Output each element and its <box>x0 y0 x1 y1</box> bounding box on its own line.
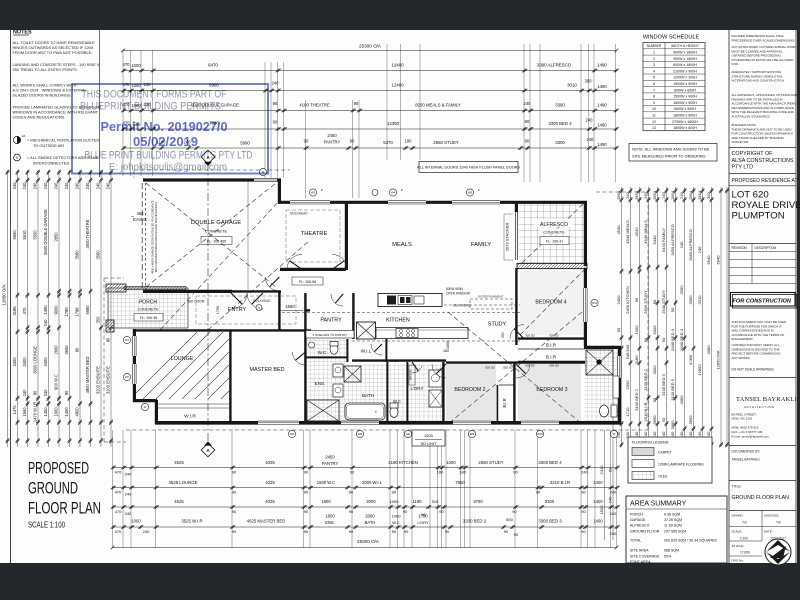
svg-text:1800W x 600H: 1800W x 600H <box>673 126 697 130</box>
svg-text:6940: 6940 <box>716 255 721 265</box>
svg-text:450: 450 <box>137 211 145 216</box>
svg-text:PLUMPTON: PLUMPTON <box>732 211 785 222</box>
svg-text:1790: 1790 <box>418 514 428 519</box>
svg-text:1800 W.C: 1800 W.C <box>317 480 335 485</box>
svg-text:37.26 SQM: 37.26 SQM <box>664 518 682 522</box>
svg-text:3300 BED 4: 3300 BED 4 <box>548 121 572 126</box>
svg-text:240: 240 <box>661 191 666 198</box>
step out wall to wc <box>584 346 621 349</box>
svg-text:L'DRY: L'DRY <box>417 520 429 525</box>
title block hline <box>729 480 796 482</box>
svg-text:2390: 2390 <box>625 380 630 390</box>
svg-text:BULKHEAD: BULKHEAD <box>290 212 308 216</box>
svg-text:5370: 5370 <box>383 140 393 145</box>
svg-text:PANTRY: PANTRY <box>324 140 341 145</box>
svg-text:3195: 3195 <box>12 306 17 316</box>
svg-text:1800W x 900H: 1800W x 900H <box>673 101 697 105</box>
svg-text:GROUND FLOOR: GROUND FLOOR <box>630 529 660 533</box>
theatre double door <box>287 254 302 269</box>
alfresco top wall <box>513 201 587 204</box>
svg-text:3600: 3600 <box>64 345 69 355</box>
svg-text:3790: 3790 <box>473 499 483 504</box>
smoke detector circle entry <box>256 305 262 311</box>
svg-text:4/: 4/ <box>321 188 323 192</box>
theatre bulkhead dashed <box>286 210 340 262</box>
svg-text:240: 240 <box>697 246 702 253</box>
svg-text:OPEN WINDOW: OPEN WINDOW <box>446 292 470 296</box>
svg-text:1470: 1470 <box>12 405 17 415</box>
window tag circles top wall <box>309 189 316 196</box>
svg-text:5000: 5000 <box>652 325 657 335</box>
svg-text:1400: 1400 <box>593 519 603 524</box>
svg-text:4025: 4025 <box>265 460 275 465</box>
svg-text:EAVES: EAVES <box>133 217 147 222</box>
svg-text:820 DOOR: 820 DOOR <box>188 300 205 304</box>
svg-text:240: 240 <box>625 191 630 198</box>
svg-text:THIS DOCUMENT FORMS PART OF: THIS DOCUMENT FORMS PART OF <box>82 89 227 101</box>
svg-text:12: 12 <box>652 120 656 124</box>
svg-text:180: 180 <box>405 139 413 144</box>
svg-text:T.B: T.B <box>776 521 781 525</box>
svg-text:8: 8 <box>653 95 655 99</box>
svg-text:BLUE PRINT BUILDING PERMITS PT: BLUE PRINT BUILDING PERMITS PTY LTD <box>85 150 253 162</box>
for construction box <box>731 293 796 307</box>
top dimension row 6 <box>123 147 617 149</box>
svg-text:B.I.R: B.I.R <box>502 398 507 407</box>
svg-text:90: 90 <box>304 509 309 514</box>
svg-text:12850 O/A: 12850 O/A <box>716 350 721 369</box>
svg-text:GROUND FLOOR PLAN: GROUND FLOOR PLAN <box>732 495 790 501</box>
svg-text:2400: 2400 <box>616 295 621 305</box>
tiled floor bath wc2 <box>347 364 407 422</box>
svg-text:4.080: 4.080 <box>688 354 693 365</box>
floor fill carpet rooms <box>446 364 496 421</box>
svg-text:1470 W.I.R: 1470 W.I.R <box>33 402 38 422</box>
svg-text:GROUND: GROUND <box>28 480 78 498</box>
svg-text:ALFRESCO: ALFRESCO <box>540 222 568 228</box>
bedroom block top wall <box>446 361 585 363</box>
svg-text:W.C: W.C <box>392 520 400 525</box>
svg-text:PROPOSED RESIDENCE AT: PROPOSED RESIDENCE AT <box>732 178 798 184</box>
svg-text:90: 90 <box>581 509 586 514</box>
svg-text:6: 6 <box>653 82 655 86</box>
wc1 fixtures <box>330 344 338 354</box>
svg-text:ANY WORKS.: ANY WORKS. <box>732 356 751 360</box>
svg-text:90: 90 <box>232 529 237 534</box>
svg-text:510: 510 <box>432 499 439 504</box>
svg-text:W1: W1 <box>125 338 130 342</box>
svg-text:1800: 1800 <box>321 499 331 504</box>
svg-text:4100 THEATRE: 4100 THEATRE <box>299 103 330 108</box>
svg-text:240: 240 <box>43 389 48 397</box>
garage centre roof line <box>247 181 249 290</box>
svg-text:4/: 4/ <box>401 188 403 192</box>
svg-text:470: 470 <box>115 529 122 534</box>
svg-text:ESMT AREA: ESMT AREA <box>630 560 651 564</box>
top dimension row 5 <box>123 128 617 130</box>
svg-text:5550: 5550 <box>12 230 17 240</box>
svg-text:W6: W6 <box>290 432 295 436</box>
svg-text:8200 MEALS & FAMILY: 8200 MEALS & FAMILY <box>415 103 461 108</box>
bottom dimension row 3 <box>113 506 617 508</box>
svg-text:PTY LTD: PTY LTD <box>732 165 754 171</box>
svg-text:ENS.: ENS. <box>325 520 335 525</box>
bottom dimension row 4 <box>113 526 617 528</box>
svg-text:240: 240 <box>610 531 617 536</box>
svg-text:290: 290 <box>501 332 505 338</box>
svg-text:BEDROOM 4: BEDROOM 4 <box>535 300 566 306</box>
title block hline <box>729 377 796 379</box>
svg-text:2673 STACKER: 2673 STACKER <box>505 223 510 252</box>
svg-text:2650 STUDY: 2650 STUDY <box>478 460 503 465</box>
svg-text:ENTERTAINMENT: ENTERTAINMENT <box>478 295 503 299</box>
svg-text:3100 BED 3: 3100 BED 3 <box>661 373 666 395</box>
svg-text:4080: 4080 <box>706 345 711 355</box>
garage top wall <box>143 178 281 181</box>
svg-text:50%: 50% <box>664 555 672 559</box>
svg-text:240: 240 <box>679 241 684 248</box>
svg-text:3100 BED 2: 3100 BED 2 <box>634 388 639 410</box>
svg-text:90: 90 <box>64 390 69 395</box>
svg-text:240: 240 <box>610 490 617 495</box>
svg-text:10: 10 <box>652 107 656 111</box>
kitchen bench <box>376 328 468 339</box>
svg-text:5440: 5440 <box>652 235 657 245</box>
svg-text:FAX: + 61 3 90777 145: FAX: + 61 3 90777 145 <box>732 430 763 434</box>
svg-text:11.69 SQM: 11.69 SQM <box>664 524 682 528</box>
ens shower <box>307 400 339 421</box>
svg-text:240: 240 <box>643 191 648 198</box>
svg-text:90: 90 <box>608 467 613 472</box>
svg-text:240: 240 <box>22 182 27 190</box>
svg-text:SCALE 1:100: SCALE 1:100 <box>28 521 65 530</box>
svg-text:1560: 1560 <box>22 407 27 417</box>
area summary box <box>626 496 727 563</box>
svg-text:3390: 3390 <box>679 285 684 295</box>
svg-text:90: 90 <box>392 529 397 534</box>
bedroom4 dashed diagonal <box>520 270 584 335</box>
svg-text:90: 90 <box>304 529 309 534</box>
svg-text:240: 240 <box>587 137 595 142</box>
wil walls <box>346 339 348 362</box>
bed2 door <box>432 364 446 378</box>
svg-text:ALL INTERNAL DOORS 2340 HIGH F: ALL INTERNAL DOORS 2340 HIGH FLUSH PANEL… <box>417 166 520 170</box>
svg-text:588 SQM: 588 SQM <box>664 549 679 553</box>
svg-text:KITCHEN: KITCHEN <box>386 318 410 324</box>
svg-text:BATH: BATH <box>362 393 374 398</box>
right outer wall wc <box>618 347 621 424</box>
svg-text:FL: 106.41: FL: 106.41 <box>546 239 563 243</box>
bottom dimension row 1 <box>113 467 617 469</box>
svg-text:1000: 1000 <box>390 499 400 504</box>
svg-text:W2: W2 <box>125 375 130 379</box>
svg-text:A R C H I T E C T U R E: A R C H I T E C T U R E <box>744 405 774 409</box>
alfresco dashed diagonal <box>522 204 583 263</box>
top dimension row 1 25300 overall <box>123 50 617 52</box>
svg-text:1400: 1400 <box>593 480 603 485</box>
svg-text:90: 90 <box>581 490 586 495</box>
entry wall stub <box>232 290 281 292</box>
title block hline <box>729 173 796 175</box>
svg-text:90: 90 <box>350 139 355 144</box>
svg-text:1200W x 300H: 1200W x 300H <box>673 76 697 80</box>
svg-text:13: 13 <box>652 126 656 130</box>
svg-text:240: 240 <box>272 81 280 86</box>
svg-text:240: 240 <box>608 496 613 503</box>
svg-text:2450: 2450 <box>327 133 337 138</box>
svg-text:2450: 2450 <box>325 455 335 460</box>
svg-text:90: 90 <box>232 509 237 514</box>
svg-text:DOUBLE GARAGE: DOUBLE GARAGE <box>191 220 241 226</box>
svg-text:MEALS: MEALS <box>392 242 412 248</box>
svg-text:920 SD: 920 SD <box>549 334 558 338</box>
svg-text:REVISION: REVISION <box>732 246 748 250</box>
svg-text:1000: 1000 <box>131 63 141 68</box>
svg-text:NUMBER: NUMBER <box>647 44 662 48</box>
svg-text:1954: 1954 <box>697 190 702 200</box>
svg-text:900 W.C: 900 W.C <box>54 374 59 390</box>
family alfresco wall with stacker door <box>515 202 518 212</box>
wc right toilet <box>600 405 609 417</box>
svg-text:WITH MANUFACTURERS DETAILS AND: WITH MANUFACTURERS DETAILS AND SPECIFICA… <box>154 202 158 272</box>
bottom dimension extension lines <box>112 430 114 548</box>
bath crossed shower box <box>344 366 361 382</box>
svg-text:W.I.L: W.I.L <box>361 349 372 354</box>
door tag top <box>372 190 378 196</box>
title block hline <box>729 185 796 187</box>
svg-text:PRECEDENCE OVER SCALED DIMENSI: PRECEDENCE OVER SCALED DIMENSIONS. <box>732 38 796 42</box>
svg-text:90: 90 <box>643 337 648 342</box>
right block tick rows <box>620 188 624 192</box>
svg-text:STUDY: STUDY <box>488 322 507 328</box>
svg-text:4525 LOUNGE: 4525 LOUNGE <box>169 480 198 485</box>
svg-text:ALFRESCO: ALFRESCO <box>630 524 650 528</box>
svg-text:4525: 4525 <box>174 499 184 504</box>
svg-text:3300: 3300 <box>545 499 555 504</box>
bedroom4 bottom wall <box>518 337 585 339</box>
svg-text:240: 240 <box>125 472 132 477</box>
svg-text:4190 KITCHEN: 4190 KITCHEN <box>388 460 418 465</box>
svg-text:1060: 1060 <box>390 359 398 363</box>
island sink and cooktop dark <box>387 296 396 305</box>
svg-text:2000: 2000 <box>366 499 376 504</box>
svg-text:240: 240 <box>125 511 132 516</box>
svg-text:90: 90 <box>525 119 530 124</box>
svg-text:12MM LAMINATE FLOORING: 12MM LAMINATE FLOORING <box>658 463 704 467</box>
svg-text:180: 180 <box>459 470 466 475</box>
window tag circles left wall <box>123 336 130 343</box>
svg-text:12480: 12480 <box>391 63 404 68</box>
svg-text:240: 240 <box>12 182 17 190</box>
pantry walls <box>304 293 306 330</box>
garage personnel door <box>265 277 279 291</box>
svg-text:6.36 SQM: 6.36 SQM <box>664 513 680 517</box>
top dark bar <box>0 0 800 30</box>
svg-text:2500 STUDY: 2500 STUDY <box>643 290 648 314</box>
svg-text:90: 90 <box>536 490 541 495</box>
svg-text:240: 240 <box>143 529 150 534</box>
title block right border <box>795 30 797 563</box>
svg-text:1000: 1000 <box>392 514 402 519</box>
svg-text:90: 90 <box>403 509 408 514</box>
svg-text:240: 240 <box>96 182 101 190</box>
svg-text:FLOORING LEGEND: FLOORING LEGEND <box>632 441 669 445</box>
svg-text:WIDTH & HEIGHT: WIDTH & HEIGHT <box>671 44 699 48</box>
svg-text:350: 350 <box>96 316 101 324</box>
svg-text:CARPET: CARPET <box>658 451 672 455</box>
pantry shelves note box <box>306 331 354 339</box>
svg-text:90: 90 <box>581 529 586 534</box>
svg-text:E-mail: tansel@tanselb.com: E-mail: tansel@tanselb.com <box>732 434 770 438</box>
svg-text:240: 240 <box>106 182 111 190</box>
svg-text:2010 B.I.R: 2010 B.I.R <box>643 402 648 421</box>
bottom dimension row 2 <box>113 487 617 489</box>
svg-text:3200 ENSUITE: 3200 ENSUITE <box>96 366 101 394</box>
svg-text:7: 7 <box>653 88 655 92</box>
title block hline <box>729 445 796 447</box>
svg-text:240: 240 <box>524 101 532 106</box>
svg-text:CONCRETE: CONCRETE <box>137 308 159 312</box>
right dimension block <box>621 187 623 447</box>
theatre right wall <box>345 203 348 270</box>
svg-text:B.I.R: B.I.R <box>546 343 557 348</box>
svg-text:BULKHEAD: BULKHEAD <box>453 304 471 308</box>
svg-text:PANTRY: PANTRY <box>322 461 339 466</box>
room label alfresco <box>534 219 574 227</box>
svg-text:12850 O/A: 12850 O/A <box>2 284 7 305</box>
svg-text:3200 BED 2: 3200 BED 2 <box>463 519 487 524</box>
svg-text:+: + <box>375 410 378 415</box>
svg-text:1000: 1000 <box>634 325 639 335</box>
svg-text:FL: 106.58: FL: 106.58 <box>299 280 316 284</box>
svg-text:90: 90 <box>634 297 639 302</box>
entertainment niche <box>470 299 512 309</box>
svg-text:3100 BED 3: 3100 BED 3 <box>670 378 675 400</box>
svg-text:3450 ALFRESCO: 3450 ALFRESCO <box>688 229 693 260</box>
svg-text:3180: 3180 <box>634 355 639 365</box>
svg-text:160: 160 <box>443 349 449 353</box>
window tag circle bed4 <box>591 299 598 306</box>
svg-text:90: 90 <box>349 529 354 534</box>
svg-text:4540: 4540 <box>616 225 621 235</box>
svg-text:1490: 1490 <box>597 123 607 128</box>
svg-text:90: 90 <box>404 529 409 534</box>
svg-text:5500 DOUBLE GARAGE: 5500 DOUBLE GARAGE <box>43 209 48 255</box>
svg-text:240: 240 <box>43 319 48 327</box>
svg-text:5500: 5500 <box>33 230 38 240</box>
svg-text:90: 90 <box>392 490 397 495</box>
svg-text:PORCH: PORCH <box>630 513 643 517</box>
svg-text:9060: 9060 <box>54 305 59 315</box>
svg-text:240: 240 <box>43 182 48 190</box>
svg-text:W.I.R: W.I.R <box>184 414 196 420</box>
svg-text:500: 500 <box>506 517 513 522</box>
svg-text:MASTER BED: MASTER BED <box>249 367 284 373</box>
svg-text:17,690: 17,690 <box>740 551 750 555</box>
wc right vanity <box>613 376 619 398</box>
legend laminate swatch <box>632 460 654 468</box>
svg-text:FLOOR PLAN: FLOOR PLAN <box>28 500 101 518</box>
wir shelf lines <box>158 403 230 405</box>
master ens wall <box>304 330 306 422</box>
svg-text:W: W <box>613 432 616 436</box>
svg-text:4080: 4080 <box>679 395 684 405</box>
svg-text:90: 90 <box>512 509 517 514</box>
svg-text:3390: 3390 <box>688 295 693 305</box>
svg-text:2540 STUDY: 2540 STUDY <box>661 290 666 314</box>
svg-text:90: 90 <box>439 509 444 514</box>
svg-text:GLAZED DOORS IN BUILDINGS.: GLAZED DOORS IN BUILDINGS. <box>13 93 72 98</box>
kitchen stove <box>396 329 418 338</box>
svg-text:820 SD: 820 SD <box>503 366 512 370</box>
svg-text:3390 ALFRESCO: 3390 ALFRESCO <box>537 63 572 68</box>
svg-text:3450 ALFRESCO: 3450 ALFRESCO <box>670 224 675 255</box>
svg-text:240: 240 <box>85 182 90 190</box>
svg-text:2400 KITCHEN: 2400 KITCHEN <box>625 286 630 314</box>
svg-text:THEATRE: THEATRE <box>301 231 328 237</box>
svg-text:2000: 2000 <box>365 514 375 519</box>
svg-text:1710: 1710 <box>625 407 630 417</box>
svg-text:470: 470 <box>115 490 122 495</box>
svg-text:BATH: BATH <box>365 520 376 525</box>
window tag circles bottom wall <box>288 430 295 437</box>
section line A-A vertical <box>207 163 209 443</box>
svg-text:4025 MASTER BED: 4025 MASTER BED <box>247 519 286 524</box>
sheet left border line <box>10 30 12 563</box>
svg-text:4050 x 4800Y GARAGE DOOR INSTA: 4050 x 4800Y GARAGE DOOR INSTALLED IN AC… <box>151 200 155 274</box>
svg-text:3010: 3010 <box>567 83 577 88</box>
legend carpet swatch <box>632 448 654 456</box>
svg-text:4025: 4025 <box>265 480 275 485</box>
svg-text:240: 240 <box>125 492 132 497</box>
svg-text:900W x 1800H: 900W x 1800H <box>673 51 697 55</box>
svg-text:4540 MEALS: 4540 MEALS <box>643 220 648 244</box>
svg-text:1954: 1954 <box>652 190 657 200</box>
svg-text:AREA SUMMARY: AREA SUMMARY <box>630 501 687 508</box>
svg-text:3400: 3400 <box>12 357 17 367</box>
svg-text:12850: 12850 <box>697 364 702 376</box>
svg-text:1190: 1190 <box>412 499 422 504</box>
svg-text:E: johnkitsoulis@gmail.com: E: johnkitsoulis@gmail.com <box>109 162 227 173</box>
svg-text:BULKHEAD: BULKHEAD <box>253 299 271 303</box>
top dimension extension lines <box>122 50 124 176</box>
svg-text:1490: 1490 <box>597 142 607 147</box>
svg-text:W9: W9 <box>470 432 475 436</box>
garage right wall upper <box>278 180 281 203</box>
svg-text:90: 90 <box>661 337 666 342</box>
svg-text:12480: 12480 <box>391 83 404 88</box>
svg-text:6470: 6470 <box>208 63 218 68</box>
svg-text:CONCRETE: CONCRETE <box>543 231 565 235</box>
svg-text:1800: 1800 <box>325 514 335 519</box>
svg-text:BLUEPRINT BUILDING PERMITS: BLUEPRINT BUILDING PERMITS <box>80 101 221 113</box>
svg-text:LOUNGE: LOUNGE <box>171 356 194 362</box>
svg-text:NOTE: ALL WINDOWS AND DOORS TO: NOTE: ALL WINDOWS AND DOORS TO BE <box>632 147 710 152</box>
svg-text:920 SD: 920 SD <box>525 334 534 338</box>
svg-text:1800W x 900H: 1800W x 900H <box>673 114 697 118</box>
section marker A top <box>201 150 215 164</box>
svg-text:240: 240 <box>22 389 27 397</box>
svg-text:2000 W.I.L: 2000 W.I.L <box>362 480 383 485</box>
svg-text:2700W x 1800H: 2700W x 1800H <box>672 120 698 124</box>
svg-text:12390: 12390 <box>387 121 400 126</box>
svg-text:DESCRIPTION: DESCRIPTION <box>755 246 777 250</box>
title block left border <box>728 30 730 563</box>
garage bottom wall <box>143 290 232 293</box>
svg-text:FL: 106.465: FL: 106.465 <box>207 239 226 243</box>
svg-text:2410: 2410 <box>599 465 604 475</box>
svg-text:FOR CONSTRUCTION: FOR CONSTRUCTION <box>733 298 792 304</box>
